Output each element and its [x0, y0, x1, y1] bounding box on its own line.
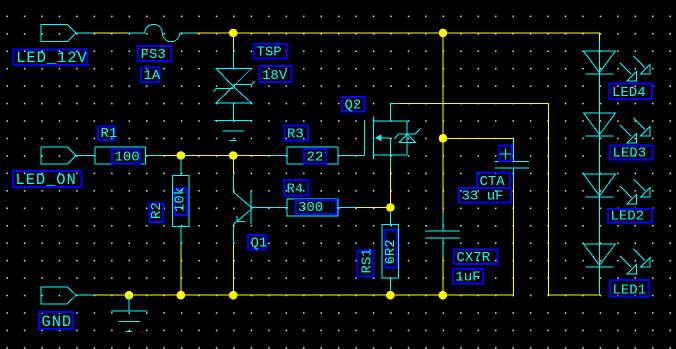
- net label LED_ON: [13, 171, 82, 189]
- svg-text:LED4: LED4: [612, 85, 646, 101]
- LED LED4 diode: [584, 51, 616, 74]
- ground symbol for TSP: [215, 121, 253, 141]
- svg-text:RS1: RS1: [359, 248, 375, 273]
- svg-text:6R2: 6R2: [383, 239, 399, 264]
- pin Q2 drain: [390, 104, 399, 122]
- transistor Q1 base bar: [250, 191, 252, 225]
- pin Q2 source: [389, 155, 391, 168]
- svg-text:300: 300: [298, 200, 323, 216]
- LED LED2 emission arrows: [620, 179, 650, 204]
- transistor Q2 body outline: [374, 121, 408, 155]
- wire LED return (drain to LED1 cathode): [548, 104, 599, 296]
- TVS diode TSP symbol: [213, 68, 255, 120]
- label CTA: [477, 173, 510, 191]
- label Q2: [342, 97, 365, 114]
- port LED_ON: [41, 147, 76, 164]
- svg-text:100: 100: [115, 150, 140, 166]
- value TSP 18V: [260, 66, 292, 84]
- pin R3 right to Q2 gate: [338, 155, 364, 157]
- wire node B to R3: [233, 155, 270, 157]
- wire R2 to ground rail: [180, 244, 182, 295]
- resistor R3: [287, 147, 338, 164]
- junction node A (R2 tap): [177, 151, 186, 160]
- pin GND port: [76, 294, 93, 296]
- svg-text:10k: 10k: [173, 187, 189, 212]
- resistor R4: [287, 199, 338, 216]
- net label LED_12V: [14, 49, 88, 67]
- value RS1 6R2: [383, 230, 399, 268]
- svg-text:GND: GND: [42, 313, 73, 331]
- pin RS1 bottom: [389, 278, 391, 295]
- svg-text:LED1: LED1: [613, 283, 647, 299]
- label CX7R: [454, 250, 498, 267]
- transistor Q2 substrate arrow: [375, 134, 390, 155]
- resistor RS1: [382, 224, 399, 278]
- pin R2 top: [180, 158, 182, 176]
- label LED1: [610, 280, 649, 299]
- junction ground rail at RS1: [386, 291, 395, 300]
- resistor R2: [172, 176, 189, 227]
- wire Q1 emitter to ground rail: [232, 245, 234, 295]
- label R1: [98, 126, 117, 142]
- label R4: [284, 180, 308, 198]
- pin R3 left: [271, 155, 289, 157]
- junction node B (Q1 collector tap): [229, 151, 238, 160]
- pin R1 right: [146, 155, 164, 157]
- LED LED4 emission arrows: [620, 56, 650, 81]
- svg-text:18V: 18V: [262, 68, 288, 84]
- transistor Q2 channel bar: [373, 117, 375, 160]
- label LED2: [608, 209, 652, 225]
- value CX7R 1uF: [453, 269, 483, 286]
- junction VIN at TSP tap: [229, 29, 238, 38]
- svg-text:1A: 1A: [144, 68, 161, 84]
- LED LED1 diode: [584, 244, 616, 267]
- wire LED string vertical: [599, 42, 601, 296]
- label TSP: [254, 44, 287, 61]
- wire cap node to CTA: [443, 137, 514, 139]
- value R2 10k: [173, 187, 189, 215]
- wire VIN down to TSP: [232, 33, 234, 51]
- label Q1: [248, 235, 267, 252]
- wire R4 to sense node: [356, 207, 391, 209]
- wire node B down to Q1: [232, 156, 234, 173]
- transistor Q2 gate bar: [363, 120, 365, 156]
- label RS1: [358, 248, 376, 276]
- wire R1 to node A: [163, 155, 181, 157]
- svg-text:Q1: Q1: [251, 236, 268, 252]
- label LED4: [610, 84, 653, 102]
- wire Q2 source to sense node: [389, 168, 391, 208]
- LED LED2 diode: [584, 174, 616, 197]
- wire port to fuse: [94, 32, 129, 34]
- capacitor CX7R: [425, 231, 460, 238]
- svg-text:22: 22: [307, 150, 324, 166]
- svg-text:LED_12V: LED_12V: [16, 49, 87, 67]
- pin TSP top: [232, 51, 234, 68]
- pin CX7R bottom: [442, 238, 444, 256]
- resistor R1: [95, 147, 146, 164]
- transistor Q2 body zener diode: [394, 129, 421, 143]
- svg-text:LED_ON: LED_ON: [16, 171, 77, 189]
- fuse FS3: [128, 24, 196, 41]
- wire node A to node B: [181, 155, 233, 157]
- pin R1 left: [76, 155, 95, 157]
- value R3 22: [304, 149, 326, 166]
- svg-text:LED2: LED2: [611, 209, 645, 225]
- svg-text:R3: R3: [287, 127, 304, 143]
- svg-text:R4: R4: [287, 182, 304, 198]
- junction top rail at cap branch: [439, 29, 448, 38]
- LED LED3 emission arrows: [620, 118, 650, 143]
- pin CTA top: [513, 138, 515, 161]
- wire top rail to LED string: [443, 33, 600, 42]
- wire CTA to ground rail: [513, 183, 515, 296]
- junction ground rail at R2: [177, 291, 186, 300]
- value R4 300: [296, 200, 337, 216]
- label LED3: [610, 146, 653, 162]
- port GND: [41, 287, 76, 304]
- value FS3 1A: [141, 68, 161, 85]
- label FS3: [138, 46, 171, 63]
- junction cap node: [439, 134, 448, 143]
- pin Q1 collector: [233, 173, 250, 207]
- junction sense node (Q2 source / RS1 / R4): [386, 203, 395, 212]
- svg-text:TSP: TSP: [257, 45, 282, 61]
- CTA polarity plus: [500, 146, 512, 162]
- LED LED3 diode: [584, 113, 616, 136]
- pin Q1 base: [251, 207, 288, 209]
- wire cap node down to CX7R: [442, 138, 444, 213]
- pin RS1 top: [389, 211, 391, 224]
- wire Q2 drain to LED return: [399, 103, 548, 105]
- ground rail wire: [94, 294, 514, 296]
- junction ground rail at Q1 emitter: [229, 291, 238, 300]
- pin LED_12V port: [76, 32, 93, 34]
- svg-text:LED3: LED3: [613, 146, 647, 162]
- wire fuse to node VIN: [196, 32, 233, 34]
- label R3: [285, 126, 309, 143]
- pin CX7R top: [442, 214, 444, 232]
- pin Q1 emitter: [233, 210, 251, 246]
- wire node A down: [180, 156, 182, 159]
- svg-text:Q2: Q2: [345, 98, 362, 114]
- wire sense node down: [389, 208, 391, 212]
- svg-text:R1: R1: [101, 126, 118, 142]
- svg-text:FS3: FS3: [141, 47, 166, 63]
- svg-text:33 uF: 33 uF: [462, 189, 504, 205]
- junction ground rail at ground symbol: [125, 291, 134, 300]
- svg-text:1uF: 1uF: [455, 270, 480, 286]
- wire top rail down to cap node: [442, 33, 444, 138]
- wire VIN to cap branch: [233, 32, 443, 34]
- svg-text:CX7R: CX7R: [457, 250, 491, 266]
- LED LED1 emission arrows: [620, 249, 650, 274]
- port LED_12V: [41, 25, 76, 42]
- pin R4 right: [338, 207, 356, 209]
- wire CX7R to ground rail: [442, 256, 444, 296]
- pin CTA bottom: [513, 168, 515, 183]
- ground symbol on rail: [111, 295, 148, 331]
- capacitor CTA: [495, 162, 530, 168]
- pin R2 bottom: [180, 226, 182, 244]
- label R2: [149, 202, 165, 222]
- value R1 100: [112, 150, 140, 166]
- net label GND: [39, 312, 73, 331]
- svg-text:R2: R2: [149, 202, 165, 219]
- junction ground rail at CX7R: [439, 291, 448, 300]
- value CTA 33uF: [459, 188, 511, 205]
